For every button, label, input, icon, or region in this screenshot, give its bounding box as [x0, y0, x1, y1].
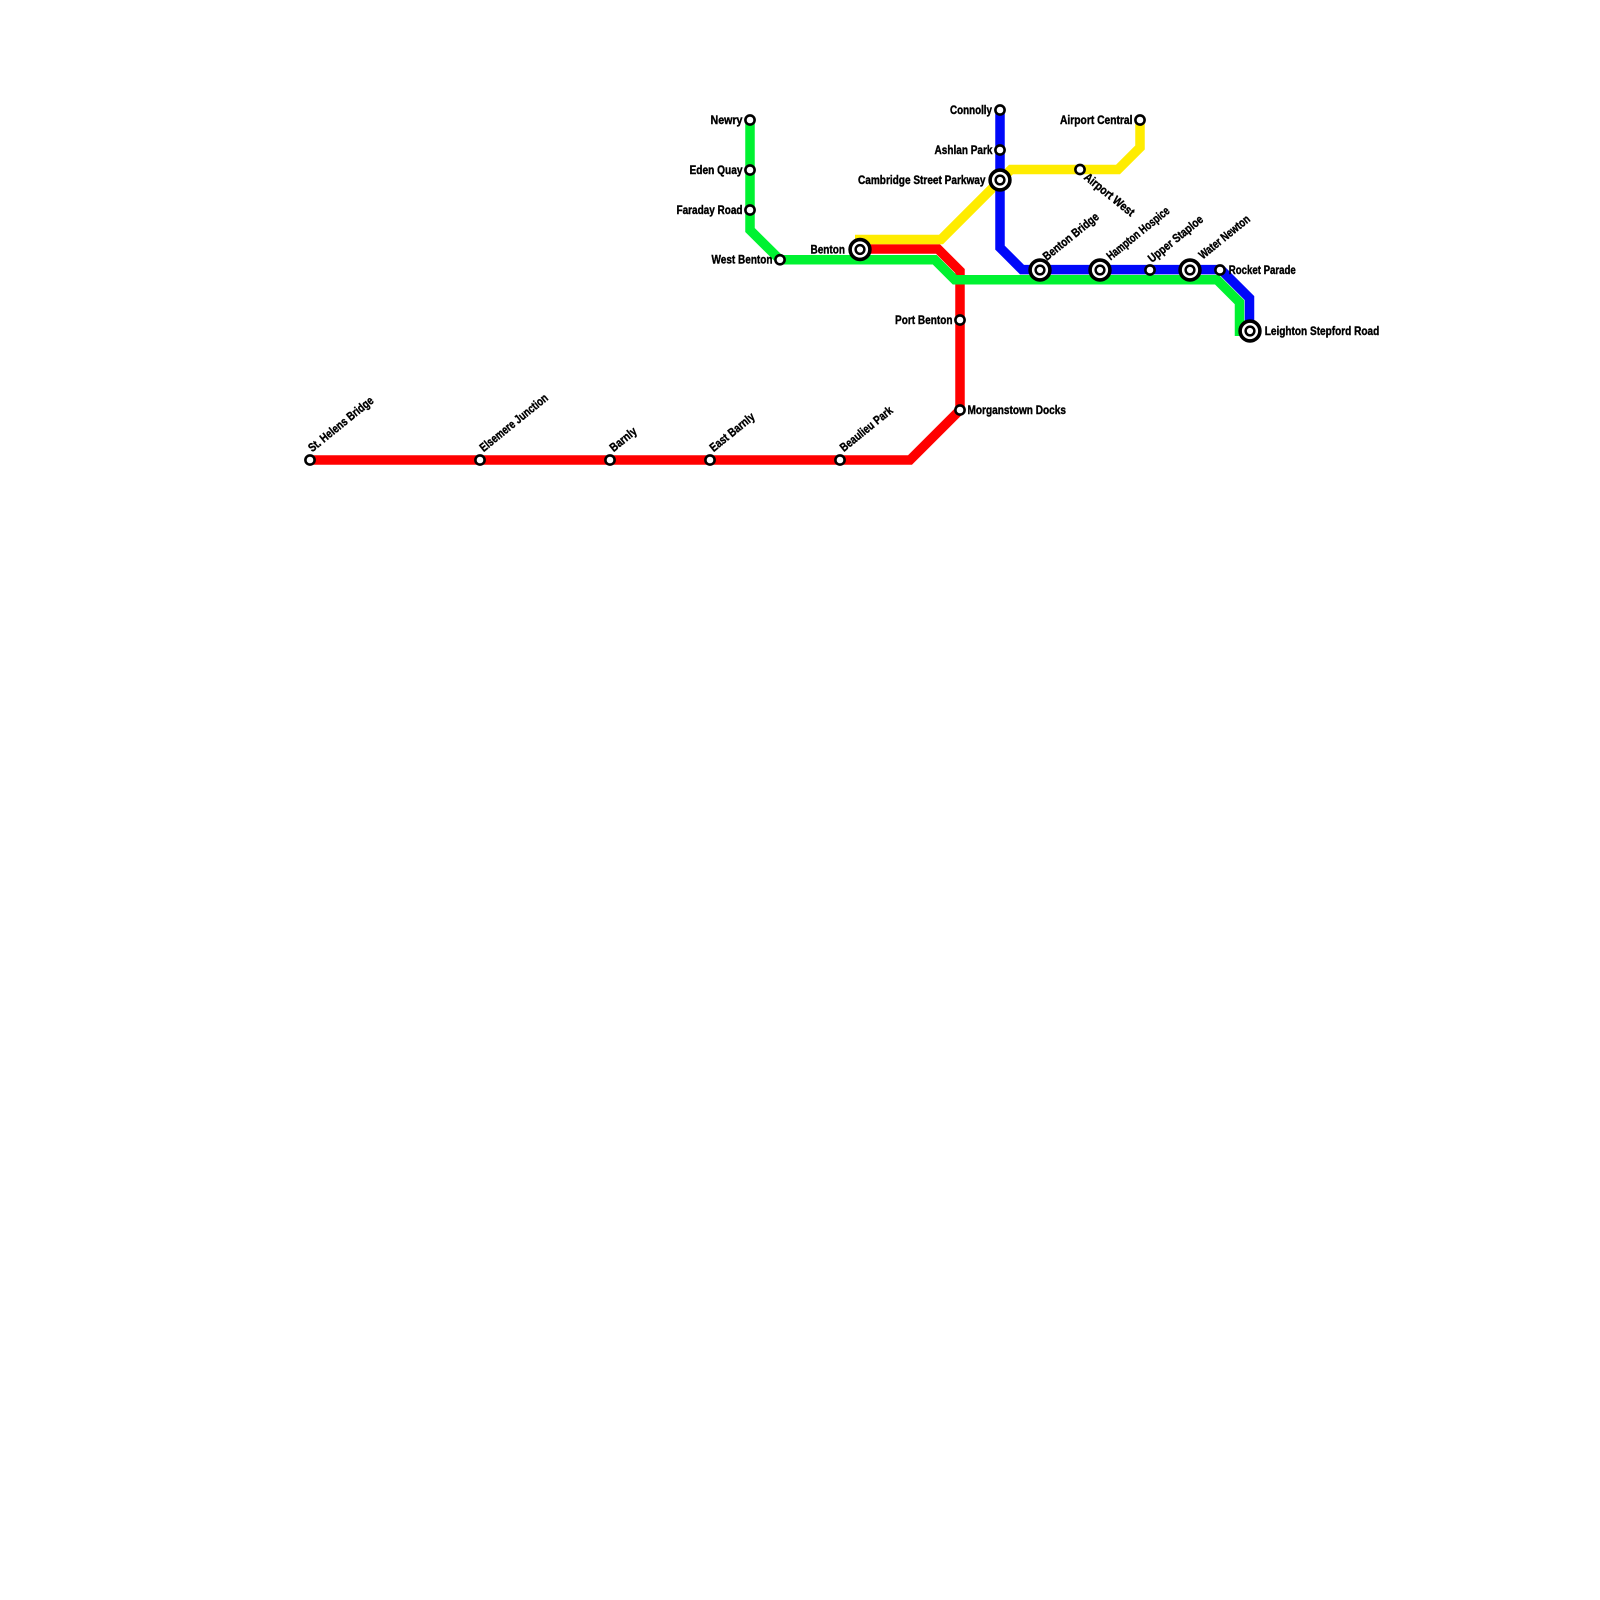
interchange Cambridge Street Parkway [990, 170, 1010, 190]
svg-text:Eden Quay: Eden Quay [690, 163, 743, 177]
svg-text:Ashlan Park: Ashlan Park [935, 143, 993, 157]
interchange Benton Bridge [1030, 260, 1050, 280]
station Airport West [1075, 165, 1084, 174]
interchange Hampton Hospice [1090, 260, 1110, 280]
interchange Benton [850, 240, 870, 260]
station Connolly [995, 105, 1004, 114]
interchange Water Newton [1180, 260, 1200, 280]
station Eden Quay [745, 165, 754, 174]
svg-text:Faraday Road: Faraday Road [677, 203, 743, 217]
station West Benton [775, 255, 784, 264]
station Newry [745, 115, 754, 124]
svg-text:Benton: Benton [811, 242, 846, 256]
red line [310, 249, 960, 460]
station Faraday Road [745, 205, 754, 214]
station Airport Central [1135, 115, 1144, 124]
svg-text:Leighton Stepford Road: Leighton Stepford Road [1265, 324, 1380, 338]
station Beaulieu Park [835, 455, 844, 464]
svg-text:Morganstown Docks: Morganstown Docks [968, 403, 1067, 417]
svg-text:Connolly: Connolly [950, 103, 992, 117]
station Upper Staploe [1145, 265, 1154, 274]
station Port Benton [955, 315, 964, 324]
interchange Leighton Stepford Road [1240, 321, 1260, 341]
blue line [1000, 110, 1250, 331]
station Rocket Parade [1215, 265, 1224, 274]
svg-text:Rocket Parade: Rocket Parade [1229, 263, 1296, 277]
svg-text:Airport Central: Airport Central [1060, 113, 1133, 127]
station Morganstown Docks [955, 405, 964, 414]
station East Barnly [705, 455, 714, 464]
station Elsemere Junction [475, 455, 484, 464]
station Ashlan Park [995, 145, 1004, 154]
svg-text:West Benton: West Benton [712, 252, 773, 266]
green line [750, 120, 1240, 336]
yellow line [855, 120, 1140, 240]
svg-text:Newry: Newry [711, 113, 743, 127]
station Barnly [605, 455, 614, 464]
svg-text:Cambridge Street Parkway: Cambridge Street Parkway [858, 173, 986, 187]
station St. Helens Bridge [305, 455, 314, 464]
svg-text:Port Benton: Port Benton [895, 313, 953, 327]
